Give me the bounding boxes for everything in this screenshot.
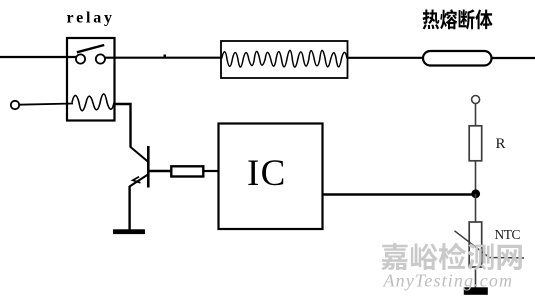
wire resistor R to node A [475, 161, 477, 194]
wire base to resistor [148, 170, 172, 172]
transistor Q1 collector diagonal [131, 147, 148, 162]
svg-text:relay: relay [67, 10, 113, 27]
label thermal fuse (Chinese) [423, 9, 493, 29]
wire heater to thermal fuse [348, 57, 424, 59]
svg-text:R: R [496, 136, 506, 152]
heater element box [221, 41, 348, 78]
wire emitter to ground [128, 186, 130, 230]
svg-text:C: C [261, 153, 286, 194]
thermistor NTC diagonal stroke [455, 231, 525, 258]
terminal circle coil input [11, 101, 19, 109]
ground bar under transistor [113, 229, 145, 234]
wire coil out to bend [114, 104, 131, 148]
terminal circle sense input [472, 96, 480, 104]
wire node A to NTC [475, 194, 477, 222]
wire resistor to IC [203, 170, 219, 172]
resistor R [469, 126, 482, 161]
relay switch arm [77, 45, 104, 52]
svg-text:I: I [247, 153, 259, 194]
relay K1 box [67, 38, 115, 121]
ground bar bottom right [464, 287, 488, 295]
relay contact terminal left [76, 54, 85, 63]
IC U1 box [219, 124, 323, 230]
relay contact terminal right [96, 54, 105, 63]
wire IC output to node A [323, 193, 477, 195]
wire terminal to relay coil [19, 104, 73, 105]
transistor Q1 base bar [147, 146, 150, 188]
relay coil winding [72, 94, 114, 111]
svg-text:AnyTesting.com: AnyTesting.com [383, 271, 513, 291]
heater element winding [222, 50, 348, 67]
transistor Q1 emitter arrowhead [133, 177, 141, 183]
wire thermal fuse to right edge [492, 57, 535, 59]
wire NTC to ground [475, 267, 477, 288]
svg-text:NTC: NTC [495, 227, 521, 242]
thermal fuse F1 capsule [423, 51, 492, 66]
node A junction dot [471, 189, 480, 198]
junction dot on top wire [164, 55, 167, 58]
thermistor NTC body [469, 222, 482, 267]
wire terminal to resistor R [475, 104, 477, 127]
wire relay contact to heater box [105, 57, 221, 59]
watermark Chinese (jiayu testing net) [381, 243, 521, 270]
transistor Q1 emitter diagonal [130, 175, 149, 187]
wire left mains input [0, 56, 77, 58]
resistor R2 base resistor [171, 166, 203, 176]
